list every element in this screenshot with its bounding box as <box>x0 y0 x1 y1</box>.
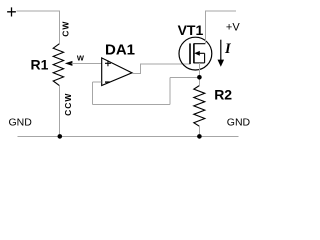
svg-text:GND: GND <box>227 116 251 128</box>
svg-text:DA1: DA1 <box>105 41 135 58</box>
wire drain to +V rail <box>205 11 236 44</box>
transistor VT1 source lead inside <box>194 62 205 64</box>
transistor VT1 bulk-source tie <box>204 53 206 63</box>
wire wiper to op-amp + input <box>72 63 102 65</box>
transistor VT1 channel line <box>193 43 195 63</box>
transistor VT1 MOSFET circle <box>179 37 212 70</box>
svg-text:+V: +V <box>226 22 240 34</box>
transistor VT1 drain lead inside <box>194 43 205 45</box>
wire feedback bottom horizontal <box>92 104 170 106</box>
wire R1 bottom to ground rail <box>58 86 60 137</box>
wire bottom ground rail <box>18 135 239 137</box>
svg-text:+: + <box>6 2 17 22</box>
svg-text:R1: R1 <box>31 57 49 73</box>
wire feedback top to source node <box>170 76 199 78</box>
wire MOSFET source down to node <box>198 63 200 86</box>
current arrow I <box>220 40 222 62</box>
wiper arrow of R1 <box>65 61 73 66</box>
transistor VT1 gate plate <box>189 43 191 64</box>
wire feedback right vertical <box>169 77 171 104</box>
wire feedback left vertical <box>91 82 93 104</box>
wire op-amp - input stub <box>92 81 101 83</box>
resistor R1 (potentiometer body) <box>53 44 63 86</box>
junction dot R2 bottom on rail <box>197 134 202 139</box>
junction dot source node <box>197 75 202 80</box>
op-amp U1 DA1 triangle <box>102 58 132 86</box>
svg-text:GND: GND <box>9 116 33 128</box>
transistor VT1 bulk line with arrow <box>198 52 205 54</box>
wire op-amp output jog <box>132 64 190 74</box>
svg-text:CCW: CCW <box>63 93 73 116</box>
op-amp + input sign <box>105 60 111 66</box>
wire R2 bottom to rail <box>198 126 200 136</box>
resistor R2 body <box>194 86 205 127</box>
wire top-left horizontal from + to R1 top <box>17 11 60 44</box>
svg-text:W: W <box>77 54 85 63</box>
op-amp - input sign <box>105 81 110 83</box>
svg-text:R2: R2 <box>214 86 232 102</box>
svg-text:CW: CW <box>61 21 71 37</box>
junction dot at R1 bottom on rail <box>58 134 63 139</box>
svg-text:VT1: VT1 <box>178 22 204 38</box>
